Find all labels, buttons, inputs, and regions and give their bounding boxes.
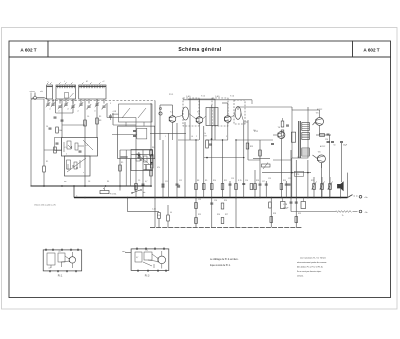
wire [238,106,292,108]
junction [176,197,178,199]
transistor T5 [316,118,324,126]
wire [321,163,323,168]
transistor T3 [225,116,232,123]
wire stage chain [176,123,179,198]
junction [127,197,129,199]
svg-text:5: 5 [226,136,227,138]
wire coil lead [47,99,49,104]
junction [222,197,224,199]
svg-text:R18: R18 [256,180,259,182]
resistor on supply line [291,132,295,142]
junction [43,185,45,187]
svg-text:R8: R8 [197,180,199,182]
capacitor C11b [144,165,153,170]
junction [329,197,331,199]
capacitor C1 [54,117,57,118]
svg-text:c2: c2 [58,111,60,113]
tuner block upper [112,126,155,159]
svg-text:10k: 10k [59,130,62,132]
wire [128,211,160,213]
svg-text:C16: C16 [245,180,248,182]
note transistors [297,257,327,278]
wire stage chain [162,140,165,198]
wire coil lead [52,99,54,104]
junction [119,185,121,187]
svg-text:c3: c3 [67,109,69,111]
junction [150,149,151,150]
oscillator coil block upper [62,138,98,157]
wire link [260,139,273,141]
svg-text:P.1 Vol.: P.1 Vol. [110,194,117,196]
wire [291,107,293,110]
svg-text:Ils ne sont pas fournis s: Ils ne sont pas fournis sépa- [297,270,322,273]
svg-text:4,7: 4,7 [136,257,138,259]
wire [227,122,229,140]
input jack [159,107,162,115]
wire [291,211,336,213]
svg-text:C19: C19 [268,178,271,180]
resistor R9 [204,133,208,148]
wire stage chain [195,140,198,228]
svg-text:P.I.3: P.I.3 [145,275,150,278]
resistor R1 [43,166,46,172]
svg-text:50: 50 [334,145,336,147]
title block right box A 602 T [353,41,391,57]
wire stage chain [265,181,268,198]
trimmer capacitor CV9 [102,104,106,109]
wire [282,118,284,121]
wire coil lead [65,99,67,104]
interstage transformer frame [292,110,308,158]
note câblage [210,258,239,267]
capacitor C29 [301,198,306,209]
resistor R17 [281,130,284,136]
oscillator coil ellipse [182,107,188,120]
wire stage chain [142,150,145,198]
wire [189,114,197,120]
title block centre box Schéma général [48,41,353,57]
svg-text:R.15: R.15 [238,180,242,182]
wire stage chain [229,181,232,198]
capacitor C4 [49,128,52,129]
wire stage chain [347,173,349,198]
wire [204,157,244,159]
title block left box A 602 T [9,41,48,57]
svg-text:P.I.1: P.I.1 [58,275,63,278]
wire stage chain [270,198,273,228]
wire stage bottom2 [206,139,228,141]
wire stage bottom [178,139,199,141]
wire stage chain [313,177,315,198]
wire [72,99,74,113]
wire T5 emitter row [316,125,331,136]
thermistor Th [336,211,358,217]
svg-text:7h: 7h [342,215,344,217]
wire stage chain [280,139,283,198]
wire [262,172,311,174]
resistor R2 [84,120,87,126]
wire stage chain [254,170,257,198]
resistor R4 [54,147,57,153]
junction [243,197,245,199]
trimmer capacitor CV2 [51,102,55,107]
capacitor CAGC1 [162,185,165,187]
svg-text:470: 470 [296,174,299,176]
svg-text:C20: C20 [325,139,328,141]
capacitor C2 [61,120,64,121]
transistor T4 [278,132,285,139]
wire [61,99,63,138]
trimmer capacitor CV3 [58,104,62,109]
wire stage chain [290,150,293,212]
wire stage top2 [188,99,215,117]
capacitor C3 [56,143,59,144]
wire [43,99,45,166]
svg-text:R9: R9 [205,136,207,138]
svg-text:R11: R11 [224,180,227,182]
junction [235,197,237,199]
wire link [244,121,248,123]
junction [211,138,213,140]
svg-text:C24: C24 [297,157,300,159]
junction [152,154,154,156]
svg-text:R5: R5 [121,162,123,164]
svg-text:AC132: AC132 [320,145,325,148]
transformer core [299,121,301,158]
resistor R13 [246,143,249,149]
svg-text:bles (blocs P.I.1, P.I.2 e: bles (blocs P.I.1, P.I.2 et P.I.3). [297,266,323,269]
capacitor C21 [331,142,335,147]
wire stage chain [135,140,138,198]
resistor RAGC [150,155,153,168]
capacitor C20 [325,139,330,143]
wire [253,158,270,160]
svg-text:R3: R3 [99,116,101,118]
wire [231,115,235,118]
wire [113,124,130,126]
diode D1 [137,152,140,159]
svg-text:c6: c6 [94,111,96,113]
svg-text:Le câblage de P.I.2 est i: Le câblage de P.I.2 est iden- [210,258,239,261]
svg-text:C8: C8 [88,181,90,183]
transformer winding lower [302,148,310,156]
svg-text:c1: c1 [49,109,51,111]
small box left [55,138,62,151]
wire stage chain [247,120,249,160]
svg-text:L.4: L.4 [85,145,88,147]
wire [251,100,253,104]
resistor R6 [167,215,170,221]
bus main negative rail [74,197,348,199]
wire link [135,118,137,141]
junction [270,197,272,199]
svg-text:R10: R10 [213,180,216,182]
svg-text:C14: C14 [157,215,160,217]
svg-text:C6: C6 [87,116,89,118]
wire [112,113,114,125]
detail box P.I.1 contents [46,249,78,273]
svg-text:c4: c4 [77,111,79,113]
IF can T.I.2 dashed box [212,98,228,126]
wire stage chain [329,135,331,198]
loudspeaker HP [337,181,343,191]
junction [295,197,297,199]
svg-text:c: c [48,81,49,83]
wire [55,99,57,113]
svg-text:R27: R27 [225,214,228,216]
wire [73,186,75,198]
svg-text:C17: C17 [262,181,265,183]
wire stage chain [210,105,213,228]
switch S1 [131,189,141,193]
resistor R22 [328,182,333,190]
transistor T1 [169,116,176,123]
resistor R5 [158,213,161,219]
IF can T.I.3 dashed box [234,100,245,124]
transformer winding middle [302,133,310,140]
wire coil lead [96,99,98,104]
junction [73,185,75,187]
svg-text:R28: R28 [273,213,276,215]
wire [167,133,169,197]
tuning gang block [119,104,153,126]
svg-text:R6: R6 [152,147,154,149]
wire stage chain [341,143,343,182]
wire coil lead [88,99,90,104]
wire stage chain [329,177,331,198]
transistor T2 [196,117,203,124]
wire [30,93,32,100]
svg-text:R9: R9 [205,180,207,182]
svg-text:L6: L6 [191,136,193,138]
wire [134,186,136,191]
junction [195,139,196,140]
wire [44,149,62,151]
svg-text:C11: C11 [165,181,168,183]
coil box L1 [47,83,53,100]
wire [31,98,44,100]
resistor R3 [96,118,99,124]
wire stage chain [285,181,288,198]
wire [308,109,320,111]
wire [125,150,127,186]
wire [56,112,74,114]
wire stage chain [150,103,153,186]
wire [112,113,119,115]
capacitor C15 [271,144,274,145]
tuner block lower [131,150,153,171]
svg-text:rément.: rément. [297,275,304,278]
wire [291,158,293,198]
wire stage chain [235,140,238,228]
svg-text:10k: 10k [253,130,256,132]
wire stage chain [321,163,323,198]
wire [96,99,98,138]
wire stage chain [340,188,342,197]
junction [321,197,323,199]
capacitor C22 [340,142,347,147]
junction [61,185,63,187]
junction [206,157,208,159]
svg-text:Les transistors T1, T2, T4: Les transistors T1, T2, T4 font [300,257,326,260]
svg-text:R1: R1 [46,161,48,163]
oscillator coil block lower [65,156,91,176]
transistor T6 [318,155,326,163]
oscillator block marks 2 [68,160,80,170]
svg-text:C3: C3 [146,250,148,252]
wire [131,154,152,156]
junction [134,185,136,187]
wire stage bottom3 [236,139,260,141]
wire [203,116,206,119]
antenna label [30,90,44,93]
IF box core [206,108,218,141]
svg-text:C13: C13 [231,178,234,180]
svg-text:nécessairement partie des ense: nécessairement partie des ensem- [297,261,327,264]
wire stage chain [295,160,298,228]
wire stage chain [242,122,245,198]
wire [237,107,239,110]
svg-text:R25: R25 [198,214,201,216]
resistor R7 [56,127,59,133]
IF coil ellipse [235,107,241,120]
tone pot P2 [262,163,271,170]
svg-text:40: 40 [170,212,172,214]
resistor R16 [281,121,284,127]
capacitor C7 [109,114,112,120]
svg-text:R26: R26 [217,214,220,216]
wire link [248,159,260,161]
junction [340,197,342,199]
svg-text:50μF: 50μF [343,145,347,147]
wire stage chain [259,140,262,198]
wire coil lead [103,99,105,104]
wire AGC [120,149,151,151]
svg-text:R29: R29 [298,213,301,215]
terminal +9v [359,196,368,200]
capacitor extra [288,184,291,185]
svg-text:1: 1 [165,136,166,138]
svg-text:4,7: 4,7 [49,268,51,270]
junction [307,197,309,199]
wire [167,205,169,215]
wire [144,164,153,166]
capacitor C27 [281,198,286,209]
junction [254,197,256,199]
wire T4 base [273,134,278,136]
svg-text:4,7: 4,7 [145,181,147,183]
junction [154,197,156,199]
wire link [273,159,291,161]
trimmer capacitor CV7 [87,104,91,109]
svg-text:R4: R4 [107,181,109,183]
wire [158,219,160,228]
resistor R21 [320,182,325,190]
trimmer capacitor CV6 [79,102,83,107]
svg-text:Schéma général: Schéma général [178,47,222,53]
junction [235,139,236,140]
junction [290,197,292,199]
volume potentiometer P1 [100,188,109,194]
antenna terminal [33,93,37,100]
wire [241,113,244,122]
resistor R15 [269,202,272,208]
wire [62,124,85,126]
wire [167,221,169,228]
wire antenna lead [31,98,48,186]
junction [184,197,186,199]
switch on rail [348,195,358,198]
junction [195,197,197,199]
label 470 [295,171,304,176]
resistor extra [250,184,253,190]
wire stage top3 [222,103,228,116]
trimmer capacitor CV4 [64,102,68,107]
svg-text:C26: C26 [214,200,217,202]
svg-text:C25: C25 [198,199,201,201]
svg-text:L: L [64,81,65,83]
svg-text:Int.: Int. [143,191,146,194]
wire [119,186,121,191]
detail box P.I.3 contents [125,248,166,272]
resistor R20 [312,182,317,190]
junction [211,197,213,199]
schematic border frame [9,57,391,298]
wire [176,116,183,118]
svg-text:tique à celui de P.I.1.: tique à celui de P.I.1. [210,264,231,267]
wire [127,198,129,212]
capacitor C12b [209,144,212,145]
svg-text:C.A.D.: C.A.D. [186,95,192,98]
wire [129,159,131,186]
svg-text:1k: 1k [204,133,206,135]
svg-text:vers: vers [122,250,125,253]
wire stage chain [184,122,186,198]
terminal -9v [359,210,368,214]
svg-text:R13: R13 [250,146,253,148]
wire stage top [160,105,173,140]
wire [313,155,318,159]
capacitor C18 [286,125,289,126]
junction [84,197,86,199]
wire IF top rail [183,99,252,101]
junction [259,197,261,199]
svg-text:osc: osc [64,181,67,183]
svg-text:A 602 T: A 602 T [363,48,379,53]
svg-text:R23: R23 [311,180,314,182]
wire coil lead [80,99,82,104]
svg-text:C23: C23 [288,178,291,180]
wire stage chain [119,150,122,186]
wire [307,107,309,110]
trimmer capacitor CV5 [71,104,75,109]
junction [105,185,107,187]
wire stage chain [214,99,216,140]
junction [313,197,315,199]
wire [199,123,201,140]
wire coil lead [59,99,61,104]
resistor R14 [259,150,262,156]
wire [313,122,316,126]
wire gang drop [154,101,156,228]
svg-text:L.5: L.5 [64,147,67,149]
svg-text:C12: C12 [179,180,182,182]
wire link [130,124,136,126]
transformer winding upper [302,123,310,131]
svg-text:C4: C4 [46,126,48,128]
wire [106,103,108,118]
svg-text:c7: c7 [101,109,103,111]
